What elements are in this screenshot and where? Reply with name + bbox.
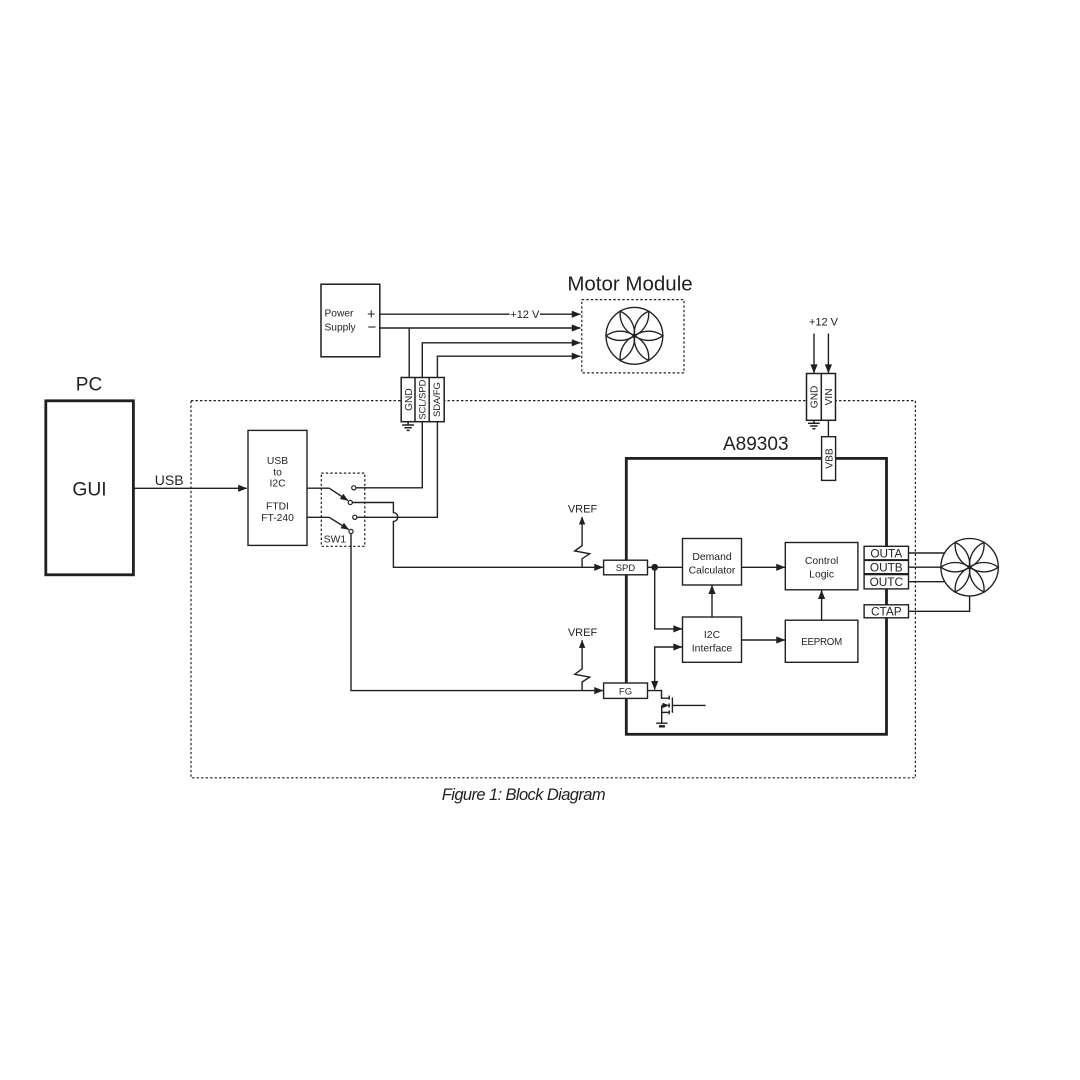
ground symbol under J2 GND pin bbox=[808, 420, 820, 428]
pin OUTA box bbox=[864, 546, 908, 560]
svg-text:OUTC: OUTC bbox=[870, 575, 904, 589]
svg-text:A89303: A89303 bbox=[723, 434, 789, 455]
svg-text:Logic: Logic bbox=[809, 569, 834, 580]
switch SW1a pole contact bbox=[348, 500, 352, 504]
svg-text:+12 V: +12 V bbox=[809, 316, 839, 328]
wire +12V into VIN pin bbox=[827, 334, 829, 374]
wire PS minus branch down to GND pin bbox=[408, 328, 410, 378]
wire +12V into GND pin bbox=[813, 334, 815, 374]
wire SW1a pole to SPD with hop over crossing bbox=[353, 503, 603, 568]
connector J2 outline bbox=[807, 374, 836, 421]
control logic block bbox=[785, 543, 858, 590]
wire SW1b pole to FG bbox=[351, 534, 603, 691]
VREF pullup squiggle to FG wire bbox=[575, 640, 590, 690]
svg-text:CTAP: CTAP bbox=[871, 605, 902, 619]
svg-text:SW1: SW1 bbox=[324, 534, 347, 545]
wire SW1b throw to SDA/FG column bbox=[357, 422, 437, 518]
switch SW1b throw contact bbox=[353, 515, 357, 519]
PC box bbox=[46, 401, 134, 575]
switch SW1a throw contact bbox=[352, 486, 356, 490]
I2C interface block bbox=[683, 617, 742, 662]
transistor Q1 open-drain mosfet bbox=[662, 696, 706, 723]
pin OUTC box bbox=[864, 575, 908, 589]
wire FG to mosfet drain bbox=[648, 691, 669, 699]
wire VIN to VBB pin bbox=[827, 420, 829, 436]
demo board dashed outline bbox=[191, 401, 915, 778]
svg-text:GND: GND bbox=[810, 386, 821, 409]
wire demand calculator to control logic bbox=[742, 566, 785, 568]
fan M2 bbox=[941, 539, 998, 596]
svg-text:−: − bbox=[368, 319, 377, 336]
wire FTDI out1 to SW1 bbox=[307, 487, 329, 489]
wire EEPROM to control logic bbox=[821, 590, 823, 620]
ground symbol under J1 GND pin bbox=[402, 422, 414, 431]
svg-text:GND: GND bbox=[404, 388, 415, 411]
wire I2C interface to EEPROM bbox=[742, 639, 785, 641]
svg-text:Supply: Supply bbox=[325, 322, 357, 333]
svg-text:+12 V: +12 V bbox=[510, 309, 540, 321]
svg-text:GUI: GUI bbox=[72, 480, 106, 501]
svg-text:OUTB: OUTB bbox=[870, 560, 903, 574]
wire OUTB to fan bbox=[909, 566, 941, 568]
switch SW1a blade bbox=[329, 488, 348, 500]
svg-text:FTDI: FTDI bbox=[266, 502, 289, 513]
pin SPD box bbox=[604, 560, 648, 575]
node junction dot at SPD bbox=[651, 564, 658, 571]
EEPROM block bbox=[785, 620, 858, 662]
demand calculator block bbox=[683, 539, 742, 586]
wire I2C interface to demand calculator bbox=[711, 585, 713, 617]
wire CTAP to fan bbox=[909, 596, 970, 611]
power supply PS1 box bbox=[321, 284, 380, 357]
switch SW1 dashed box bbox=[321, 473, 365, 546]
wire SDA/FG to motor module bbox=[437, 356, 580, 377]
wire I2C interface in2 to FG node bbox=[655, 647, 682, 690]
USB-to-I2C bridge U2 box bbox=[248, 430, 307, 545]
pin CTAP box bbox=[864, 605, 908, 618]
svg-text:Figure 1: Block Diagram: Figure 1: Block Diagram bbox=[442, 786, 605, 804]
svg-text:Motor Module: Motor Module bbox=[567, 273, 692, 296]
wire SPD to demand calculator bbox=[648, 566, 683, 568]
svg-text:I2C: I2C bbox=[704, 630, 721, 641]
transistor Q1 body arrow bbox=[663, 704, 669, 706]
svg-text:FG: FG bbox=[619, 686, 632, 697]
wire SW1a throw to SCL/SPD column bbox=[356, 422, 422, 488]
motor fan M1 bbox=[606, 307, 663, 364]
svg-text:OUTA: OUTA bbox=[870, 546, 902, 560]
svg-text:FT-240: FT-240 bbox=[261, 513, 294, 524]
wire PS minus to motor module bbox=[380, 327, 581, 329]
connector J1 divider pins bbox=[415, 378, 429, 422]
svg-text:VIN: VIN bbox=[824, 388, 835, 405]
pin OUTB box bbox=[864, 560, 908, 573]
pin FG box bbox=[604, 683, 648, 698]
connector J2 divider bbox=[820, 374, 822, 421]
svg-text:VREF: VREF bbox=[568, 627, 598, 639]
svg-text:PC: PC bbox=[76, 375, 102, 396]
wire +12V from PS plus to motor module bbox=[380, 313, 581, 315]
svg-text:Calculator: Calculator bbox=[689, 565, 736, 576]
pin VBB box bbox=[822, 437, 836, 481]
svg-text:SCL/SPD: SCL/SPD bbox=[417, 379, 428, 419]
svg-text:VBB: VBB bbox=[824, 448, 835, 469]
wire OUTC to fan bbox=[909, 581, 945, 583]
wire OUTA to fan bbox=[909, 552, 945, 554]
svg-text:Power: Power bbox=[325, 309, 354, 320]
wire FTDI out2 to SW1 bbox=[307, 516, 329, 518]
VREF pullup squiggle to SPD wire bbox=[575, 517, 590, 567]
svg-text:SDA/FG: SDA/FG bbox=[431, 382, 442, 417]
svg-text:USB: USB bbox=[155, 472, 184, 488]
motor module dashed box bbox=[582, 300, 684, 373]
ground symbol at Q1 source bbox=[656, 723, 667, 726]
A89303 IC box bbox=[626, 458, 886, 734]
wire USB from PC to FTDI bbox=[134, 487, 247, 489]
svg-text:Demand: Demand bbox=[692, 552, 731, 563]
svg-text:VREF: VREF bbox=[568, 504, 598, 516]
svg-text:I2C: I2C bbox=[269, 478, 286, 489]
switch SW1b blade bbox=[329, 517, 348, 529]
svg-text:EEPROM: EEPROM bbox=[801, 637, 842, 648]
wire SCL/SPD to motor module bbox=[422, 343, 580, 378]
svg-text:USB: USB bbox=[267, 456, 288, 467]
switch SW1b pole contact bbox=[349, 529, 353, 533]
wire junction to I2C interface in1 bbox=[655, 567, 682, 629]
svg-text:Control: Control bbox=[805, 556, 839, 567]
svg-text:Interface: Interface bbox=[692, 643, 733, 654]
svg-text:to: to bbox=[273, 467, 282, 478]
svg-text:SPD: SPD bbox=[616, 563, 636, 574]
connector J1 outline bbox=[401, 378, 444, 422]
